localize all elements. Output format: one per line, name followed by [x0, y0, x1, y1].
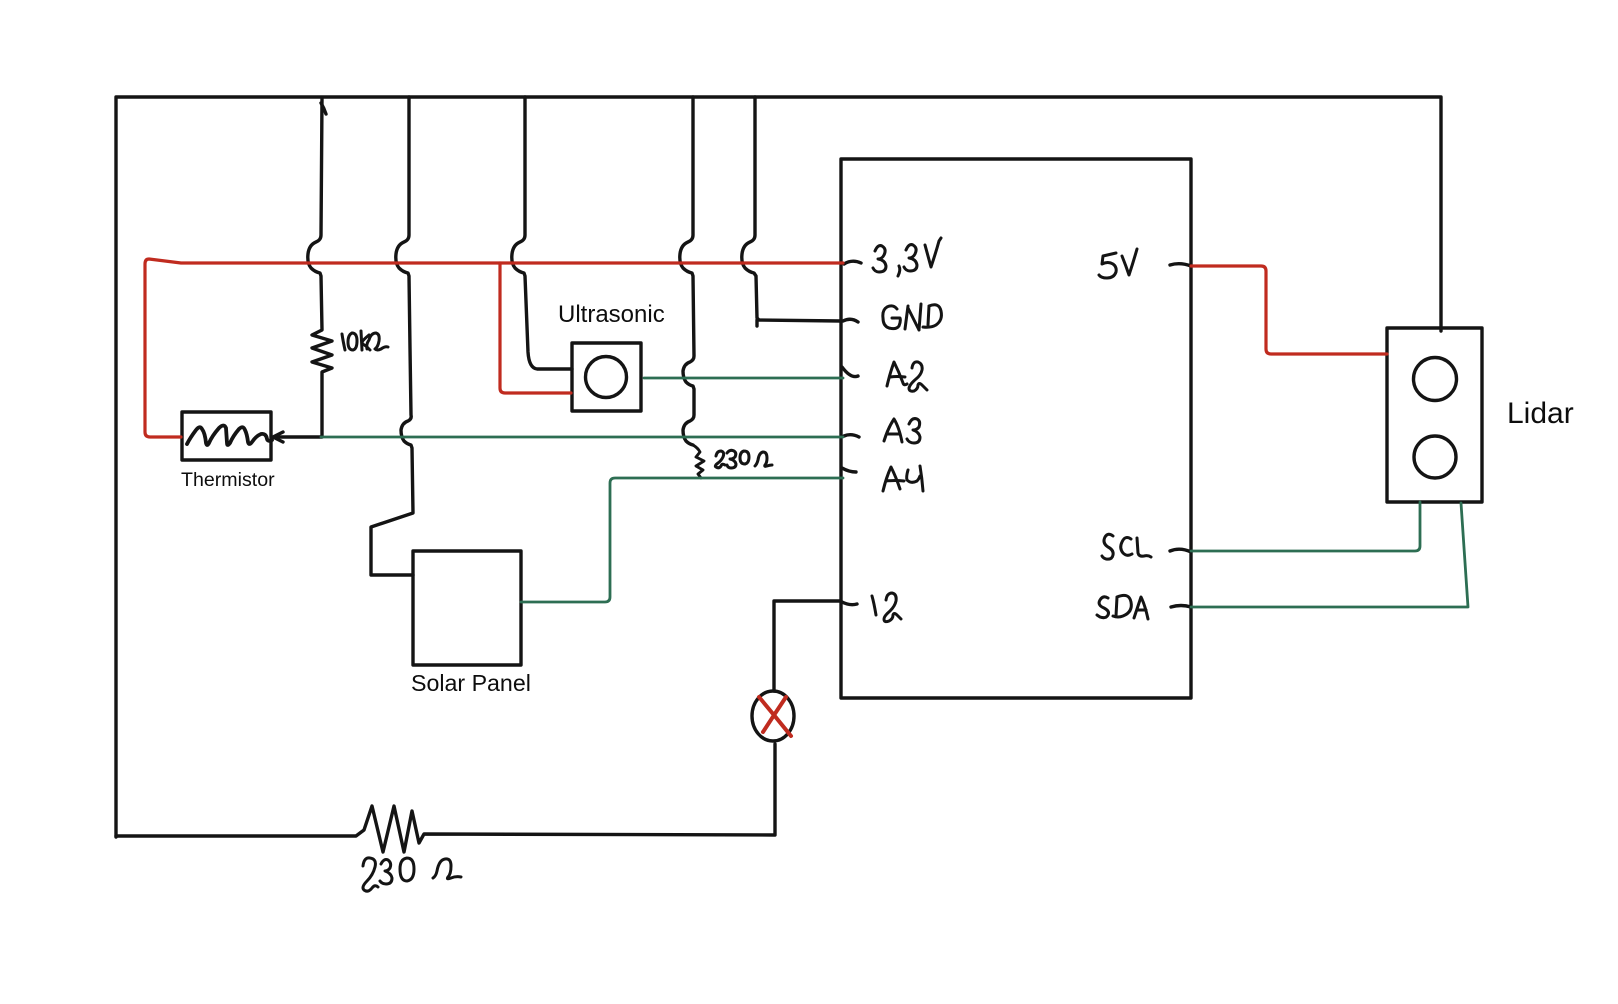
resistor R2 small zigzag body: [693, 445, 704, 478]
pin label 12: [872, 593, 901, 622]
wire: junction from 10K bottom to thermistor with arrowhead: [276, 435, 321, 438]
lamp L1 bulb outline: [752, 691, 794, 741]
svg-text:Thermistor: Thermistor: [181, 469, 275, 491]
svg-text:Lidar: Lidar: [1507, 397, 1574, 430]
pin tick 12: [842, 602, 857, 605]
pin tick SDA: [1171, 606, 1191, 608]
wire: vertical to GND pin, hop over red rail: [742, 97, 841, 326]
lidar lens circle top: [1414, 358, 1457, 401]
pin label A4: [883, 466, 923, 491]
green nets: [321, 378, 1468, 607]
handwritten pin labels: [342, 238, 1151, 891]
pin label 5V: [1099, 249, 1137, 278]
pin tick GND: [843, 319, 858, 322]
ultrasonic sensor box: [572, 343, 641, 411]
microcontroller U1 box: [841, 159, 1191, 698]
pin label GND: [883, 304, 942, 330]
wire: green SDA net to lidar: [1191, 503, 1468, 607]
wire: vertical to solar panel, hops over red rail and green A3: [371, 97, 413, 575]
svg-text:Solar Panel: Solar Panel: [411, 670, 531, 696]
pin label A2: [887, 362, 927, 391]
resistor R2 wire: vertical with hops over red, A2, A3 then small 230 zigzag to A4: [680, 97, 694, 445]
value label 230 ohm bottom: [363, 858, 461, 891]
wire: outer loop left border, top rail, right drop into Lidar: [116, 97, 1441, 837]
red nets: [145, 259, 1387, 736]
wire: 5V red from pin to lidar: [1191, 266, 1387, 354]
value label 230 ohm small: [715, 450, 772, 468]
ultrasonic sensor eye circle: [586, 357, 627, 398]
lidar lens circle bottom: [1414, 436, 1456, 478]
pin label SCL: [1102, 534, 1151, 559]
wire: pin 12 to lamp: [774, 601, 841, 691]
wire: red branch to ultrasonic: [500, 263, 571, 393]
wire: green A2 net from ultrasonic: [644, 377, 843, 380]
lidar box: [1387, 328, 1482, 502]
pin tick 5V: [1170, 264, 1191, 266]
wire: green A3 net from thermistor junction: [321, 436, 843, 439]
resistor R1 wire: vertical from top rail through 10K, hop over red rail: [308, 99, 332, 437]
lamp L1 red X: [759, 697, 791, 736]
pin label 3,3V: [873, 238, 941, 276]
pin label A3: [884, 419, 920, 443]
svg-text:Ultrasonic: Ultrasonic: [558, 301, 665, 328]
thermistor squiggle: [187, 426, 272, 446]
pin tick 3.3V: [844, 261, 861, 264]
pin tick A2: [842, 367, 858, 377]
solar panel box: [413, 551, 521, 665]
wire: green A4 net from solar panel: [521, 478, 843, 602]
wire: 3.3V rail red from pin to thermistor: [145, 259, 843, 437]
value label 10K ohm: [342, 331, 388, 350]
wire: green SCL net to lidar: [1191, 502, 1420, 551]
pin tick SCL: [1170, 549, 1191, 552]
arrowhead into thermistor: [273, 432, 283, 442]
wire: bottom return with 230 ohm resistor R3: [116, 744, 775, 852]
pin tick A3: [844, 435, 859, 437]
wire: vertical to ultrasonic top input, hop over red rail: [512, 97, 572, 369]
arrowhead at top of R1 wire: [321, 103, 326, 114]
thermistor box: [182, 412, 271, 460]
pin tick A4: [842, 468, 856, 472]
pin label SDA: [1097, 595, 1148, 619]
